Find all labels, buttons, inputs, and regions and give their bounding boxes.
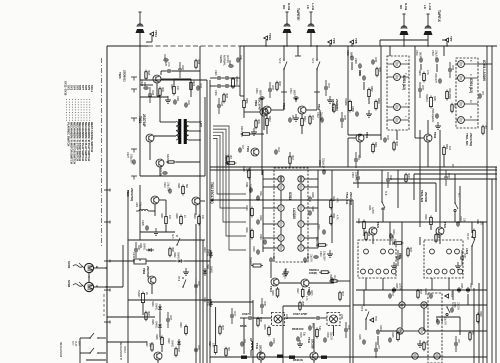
wire bus loop <box>213 126 246 250</box>
label T501 <box>433 132 437 139</box>
svg-text:R923: R923 <box>170 84 173 90</box>
junction <box>389 166 390 167</box>
junction <box>459 166 460 167</box>
switch contact rail <box>131 77 137 180</box>
wire <box>304 207 318 209</box>
junction <box>459 169 460 170</box>
wire <box>263 116 265 130</box>
wire <box>478 63 492 65</box>
junction <box>439 166 440 167</box>
capacitor C921 10n <box>173 96 179 105</box>
capacitor C662 680P <box>346 50 354 61</box>
wire <box>266 126 268 134</box>
texture part <box>448 65 453 73</box>
wire <box>195 224 197 363</box>
svg-text:R511: R511 <box>332 213 335 219</box>
junction <box>469 166 470 167</box>
junction <box>439 221 440 222</box>
svg-text:220μ/6.3V: 220μ/6.3V <box>354 172 356 182</box>
label IC501 (1/2) right <box>469 78 473 93</box>
svg-text:T512: T512 <box>317 104 321 111</box>
resistor R933 10K <box>224 155 237 166</box>
wire <box>282 306 284 363</box>
wire <box>414 46 416 125</box>
wire <box>107 341 147 343</box>
label C621 1u/50V <box>368 205 371 211</box>
svg-text:C51?: C51? <box>327 83 329 89</box>
wire <box>210 77 216 79</box>
label R548 left <box>240 324 247 328</box>
mute head L541 <box>327 313 344 326</box>
wire <box>128 299 210 301</box>
ground <box>435 122 441 129</box>
op-amp IC501 right stage 1 <box>458 61 465 68</box>
svg-text:R963: R963 <box>245 205 248 211</box>
junction <box>471 221 472 222</box>
label L921 <box>199 121 203 128</box>
svg-text:R500 150K: R500 150K <box>448 88 451 100</box>
test point TP10 <box>264 33 272 40</box>
transformer T921 primary winding <box>176 122 178 140</box>
wire <box>380 39 428 41</box>
junction <box>446 45 448 47</box>
svg-text:R926: R926 <box>197 59 199 65</box>
svg-text:R930: R930 <box>179 322 182 328</box>
svg-text:C665: C665 <box>358 70 361 76</box>
wire <box>283 69 285 92</box>
resistor R526 <box>424 214 432 227</box>
terminal stub <box>104 321 110 324</box>
wire bus loop <box>213 138 246 194</box>
transistor T641 <box>251 148 259 156</box>
svg-text:R61?: R61? <box>341 291 343 297</box>
texture part <box>159 87 163 98</box>
diode D935 GMA01 <box>151 319 162 330</box>
op-amp IC511 stage R5 <box>298 235 304 241</box>
label L521 <box>465 248 469 255</box>
wire <box>380 304 399 306</box>
resistor R625 <box>397 329 402 342</box>
svg-text:T541: T541 <box>255 343 259 350</box>
svg-text:C5L?: C5L? <box>311 323 313 329</box>
svg-text:C66?: C66? <box>271 85 273 91</box>
svg-text:GMA01: GMA01 <box>142 243 145 251</box>
legend entry SY8 <box>84 85 88 161</box>
osc L621 c6 <box>376 269 381 274</box>
capacitor C605b <box>358 334 366 345</box>
wire <box>189 121 200 123</box>
test point TP9 <box>328 38 336 44</box>
wire <box>210 85 216 87</box>
terminal stub <box>104 189 110 192</box>
junction <box>283 45 318 47</box>
label T521 <box>443 222 447 229</box>
wire <box>316 69 318 92</box>
pin <box>464 116 478 120</box>
transistor T961 <box>148 276 156 284</box>
wire <box>448 278 450 290</box>
svg-text:R526: R526 <box>424 214 427 220</box>
svg-text:R662: R662 <box>370 86 373 92</box>
osc L521 c2 <box>447 249 452 254</box>
capacitor C561 33u/10V <box>245 182 253 193</box>
capacitor C922 <box>224 76 230 80</box>
texture part <box>228 60 234 68</box>
inductor L922 100uH <box>135 202 151 211</box>
svg-text:IC511: IC511 <box>288 192 292 200</box>
wire <box>189 139 200 141</box>
op-amp IC521 stage <box>419 328 425 334</box>
texture part <box>217 101 222 109</box>
svg-text:C926: C926 <box>141 220 144 226</box>
wire <box>379 40 381 46</box>
capacitor C925 3.7n <box>164 60 172 73</box>
svg-text:T521, 621: T521, 621 <box>420 190 424 203</box>
svg-text:680P: 680P <box>258 90 262 96</box>
label T923 2SD17NQ <box>126 190 130 197</box>
resistor R929 100 <box>193 213 204 226</box>
svg-text:GMA01: GMA01 <box>206 249 209 257</box>
wire <box>452 290 454 300</box>
wire <box>98 352 106 354</box>
resistor R924 <box>190 80 196 92</box>
wire <box>107 260 134 262</box>
wire <box>348 137 356 139</box>
junction <box>127 239 128 240</box>
svg-text:TP7: TP7 <box>449 36 453 42</box>
transformer T921 core <box>178 119 187 144</box>
svg-text:22μ/10V: 22μ/10V <box>329 332 331 340</box>
svg-text:R624: R624 <box>367 231 369 237</box>
wire <box>372 235 374 244</box>
ground <box>297 340 303 347</box>
wire <box>425 330 487 332</box>
svg-text:C54?: C54? <box>347 325 349 331</box>
capacitor C511 680P <box>289 88 299 100</box>
svg-text:2SD734F: 2SD734F <box>146 266 150 278</box>
wire <box>283 92 285 110</box>
wire <box>446 42 448 46</box>
wire stub <box>269 82 271 98</box>
svg-text:C62?: C62? <box>399 253 401 259</box>
svg-text:C500 27P: C500 27P <box>434 73 437 83</box>
texture part <box>308 323 313 331</box>
wire <box>357 170 359 175</box>
wire <box>263 207 278 209</box>
osc L521 c3 <box>455 249 460 254</box>
resistor SW9611 trim <box>232 76 239 89</box>
svg-text:IC501 LA3160: IC501 LA3160 <box>482 60 486 81</box>
switch SY-10 <box>466 233 475 247</box>
svg-text:C525: C525 <box>440 317 443 323</box>
resistor R511 4.7K <box>330 213 339 226</box>
wire <box>427 304 445 306</box>
svg-text:SVR97: SVR97 <box>137 290 140 298</box>
label MECHANISM left <box>59 342 63 357</box>
svg-text:R9??: R9?? <box>221 325 223 331</box>
wire <box>139 185 141 240</box>
wire <box>260 360 262 363</box>
svg-text:T924: T924 <box>118 72 122 79</box>
wire <box>319 110 321 167</box>
svg-text:T661: T661 <box>254 100 258 107</box>
svg-text:4.7K: 4.7K <box>335 215 338 220</box>
svg-text:SVR611: SVR611 <box>249 257 252 266</box>
wire <box>266 114 268 118</box>
svg-text:TP12: TP12 <box>450 291 454 297</box>
wire <box>151 284 153 294</box>
junction <box>249 166 250 167</box>
svg-text:C621: C621 <box>368 205 371 211</box>
resistor R611 220 <box>473 219 483 240</box>
junction <box>452 221 453 222</box>
wire <box>495 167 497 363</box>
wire <box>200 200 205 202</box>
op-amp IC511 stage L4 <box>278 221 284 227</box>
svg-text:C511: C511 <box>289 88 293 94</box>
label IC501 (1/2) <box>402 75 406 90</box>
junction <box>179 239 180 240</box>
svg-text:R524: R524 <box>437 233 439 239</box>
wire <box>443 46 445 56</box>
texture part <box>299 301 303 312</box>
wire <box>243 46 245 96</box>
svg-text:4.7K: 4.7K <box>335 198 338 203</box>
label IC511 <box>288 192 292 200</box>
transistor T923 <box>151 196 159 204</box>
test point TP7 <box>445 36 453 42</box>
wire <box>382 211 384 222</box>
wire <box>160 121 176 123</box>
resistor R512 <box>301 116 306 128</box>
texture part <box>354 155 359 163</box>
svg-text:C921: C921 <box>214 70 217 76</box>
switch SW660 <box>344 98 352 113</box>
switch mech 1 <box>89 333 99 339</box>
junction <box>427 45 429 47</box>
svg-text:C563: C563 <box>259 234 262 240</box>
texture part <box>418 85 423 93</box>
svg-text:R50L: R50L <box>445 144 448 150</box>
capacitor C547 right <box>315 316 321 320</box>
label L621 <box>398 253 402 260</box>
wire <box>157 95 160 97</box>
svg-text:R615: R615 <box>271 290 274 296</box>
junction <box>139 45 141 47</box>
transistor T924 <box>153 75 161 83</box>
wire <box>427 120 429 134</box>
wire <box>352 200 354 363</box>
svg-text:R933: R933 <box>225 93 227 99</box>
wire <box>244 111 260 113</box>
wire <box>300 211 302 221</box>
wire <box>222 77 224 79</box>
wire <box>139 70 141 112</box>
texture part <box>194 345 199 353</box>
wire stub <box>355 152 357 168</box>
wire <box>209 80 211 363</box>
wire <box>271 109 284 111</box>
switch SY-9 b <box>360 306 369 320</box>
texture part <box>268 85 273 93</box>
wire <box>353 182 436 184</box>
svg-text:T501, 601: T501, 601 <box>465 133 469 146</box>
junction <box>199 121 201 141</box>
svg-text:L-CH: L-CH <box>311 3 315 10</box>
svg-text:C613: C613 <box>272 255 275 261</box>
svg-text:R518: R518 <box>479 311 482 317</box>
transistor T541 <box>257 352 265 360</box>
capacitor C513 220u/6.3V <box>351 172 360 182</box>
texture part <box>340 115 345 123</box>
svg-text:R661: R661 <box>257 119 259 125</box>
wire <box>438 316 460 318</box>
texture part <box>393 141 397 152</box>
ground <box>366 110 372 117</box>
svg-text:R612: R612 <box>268 116 271 122</box>
svg-text:C502: C502 <box>451 65 453 71</box>
svg-text:12K: 12K <box>168 215 171 219</box>
resistor R928 1K <box>175 213 186 226</box>
tape head connector RK R-CH tape A <box>400 14 409 35</box>
svg-text:10K: 10K <box>211 343 214 347</box>
texture part <box>454 339 459 347</box>
svg-text:R50?: R50? <box>453 103 455 109</box>
wire <box>331 170 333 243</box>
op-amp block IC511 box <box>274 168 308 262</box>
diode D941 GMA01 <box>203 264 212 276</box>
wire <box>140 79 207 81</box>
label T541 2SC536 <box>255 343 259 350</box>
capacitor C506 10u/16V <box>431 108 439 123</box>
svg-text:C93?: C93? <box>169 315 171 321</box>
capacitor C503 100u/6.3V <box>431 50 439 63</box>
wire <box>351 44 353 46</box>
ground <box>153 228 159 235</box>
capacitor C625 <box>388 332 394 343</box>
wire <box>261 98 263 175</box>
svg-text:C616: C616 <box>259 215 262 221</box>
capacitor C525 10u/16V <box>436 317 445 325</box>
texture part <box>260 301 265 309</box>
wire <box>313 360 315 363</box>
op-amp IC521 stage <box>434 353 440 359</box>
op-amp IC511 stage L6 <box>278 245 284 251</box>
op-amp block IC521 box <box>428 293 442 363</box>
resistor R937 10K <box>208 341 217 355</box>
texture part <box>195 59 199 70</box>
wire <box>316 92 318 110</box>
transistor T661 <box>260 108 268 116</box>
svg-text:R925: R925 <box>147 70 149 76</box>
wire <box>403 35 405 46</box>
junction <box>161 239 162 240</box>
svg-text:R548 150: R548 150 <box>292 327 304 331</box>
ground <box>165 96 171 103</box>
wire <box>304 178 318 180</box>
wire <box>389 222 391 245</box>
wire <box>439 130 441 227</box>
svg-text:C506 10μ/16V: C506 10μ/16V <box>431 108 434 123</box>
terminal pad <box>321 356 327 359</box>
svg-text:C667: C667 <box>343 115 345 121</box>
texture part <box>219 325 223 336</box>
texture part <box>288 115 293 123</box>
svg-text:D935: D935 <box>151 319 154 325</box>
svg-text:R545: R545 <box>263 324 266 330</box>
resistor R951 <box>243 98 248 110</box>
capacitor C913 220u/6.3V <box>318 158 326 175</box>
wire <box>304 237 318 239</box>
svg-text:C924: C924 <box>163 54 165 60</box>
wire <box>301 126 303 134</box>
capacitor C926 <box>141 220 149 231</box>
wire <box>249 167 251 315</box>
op-amp IC501 stage 3 <box>394 104 401 111</box>
svg-text:3.7n: 3.7n <box>167 62 171 67</box>
texture part <box>166 315 171 323</box>
op-amp IC511 stage R3 <box>298 205 304 211</box>
wire <box>454 174 456 203</box>
op-amp IC511 stage L2 <box>278 184 284 190</box>
svg-text:T922 2SC17NQ: T922 2SC17NQ <box>210 182 214 204</box>
svg-text:R60L: R60L <box>374 142 377 148</box>
wire <box>161 70 166 72</box>
svg-text:C512: C512 <box>459 216 462 222</box>
junction <box>419 221 420 222</box>
capacitor C623 <box>389 229 395 239</box>
svg-text:C501: C501 <box>415 50 418 56</box>
svg-text:C93?: C93? <box>197 281 199 287</box>
label TAPE 'B' <box>296 8 300 21</box>
svg-text:T961: T961 <box>142 268 146 275</box>
texture part <box>145 311 149 322</box>
svg-text:C9??: C9?? <box>233 311 235 317</box>
osc L621 c1 <box>364 249 369 254</box>
junction <box>329 45 331 47</box>
svg-text:4.7K: 4.7K <box>305 296 308 301</box>
capacitor C931 <box>214 84 222 96</box>
svg-text:SW660: SW660 <box>344 98 347 106</box>
wire <box>473 288 475 363</box>
wire bus loop <box>213 129 246 236</box>
wire <box>122 245 124 287</box>
label T661 2SC1740 <box>254 100 258 107</box>
svg-text:R54?: R54? <box>301 301 303 307</box>
wire <box>160 71 162 75</box>
wire <box>415 137 424 139</box>
wire stub <box>218 98 220 114</box>
diode D951 GMA01 <box>203 297 213 307</box>
label T621 <box>376 222 380 229</box>
svg-text:Sʳ-8: Sʳ-8 <box>384 191 388 196</box>
svg-text:L541: L541 <box>340 314 344 320</box>
wire top bus left <box>107 45 148 47</box>
wire <box>154 135 176 137</box>
resistor R923 10K <box>170 84 179 96</box>
wire <box>243 318 245 354</box>
svg-text:SW501: SW501 <box>425 94 428 102</box>
wire <box>486 46 488 363</box>
wire <box>351 62 353 70</box>
svg-text:C546: C546 <box>272 338 275 344</box>
svg-text:C60?: C60? <box>386 135 388 141</box>
transistor T922b <box>192 197 200 205</box>
wire <box>94 286 106 288</box>
wire <box>419 237 421 245</box>
capacitor C924 100u/10V <box>126 152 136 165</box>
wire <box>210 301 253 303</box>
